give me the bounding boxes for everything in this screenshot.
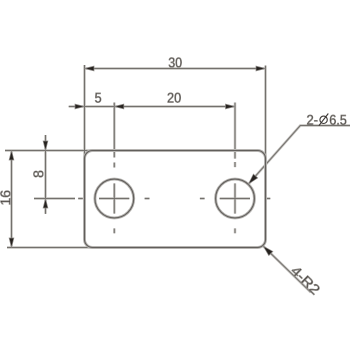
arrowhead 30-dim right — [256, 66, 266, 71]
arrowhead 20-dim left (pointing left) — [114, 104, 124, 109]
dimension text 30 — [169, 58, 182, 68]
arrowhead leader 2-dia6.5 (pointing down-left at hole) — [246, 174, 257, 186]
dimension text 16 (rotated) — [0, 191, 10, 205]
leader text diameter symbol — [319, 114, 328, 126]
object line core pass (plate and holes) — [85, 151, 266, 248]
thin line halo pass — [5, 65, 350, 292]
dimension text 20 — [168, 93, 181, 103]
leader text 6.5 — [330, 115, 346, 125]
arrowhead 16-dim top (pointing up) — [9, 151, 14, 161]
thin line core pass — [5, 65, 350, 292]
arrowhead 5-dim left (outside, pointing right) — [75, 104, 85, 109]
arrowhead 16-dim bottom (pointing down) — [9, 238, 14, 248]
dimension text 5 — [95, 93, 101, 103]
object line halo pass (plate and holes) — [85, 151, 266, 248]
arrowhead 20-dim right (pointing right) — [226, 104, 236, 109]
leader text 4-R2 (rotated along leader) — [290, 265, 320, 295]
arrowhead 8-dim bottom (outside, pointing up) — [43, 199, 48, 209]
arrowhead leader 4-R2 (pointing up-left at corner) — [261, 244, 273, 255]
arrowhead 30-dim left — [85, 66, 95, 71]
leader text 2- — [307, 115, 317, 125]
arrowhead 8-dim top (outside, pointing down) — [43, 141, 48, 151]
dimension text 8 (rotated) — [33, 171, 43, 178]
